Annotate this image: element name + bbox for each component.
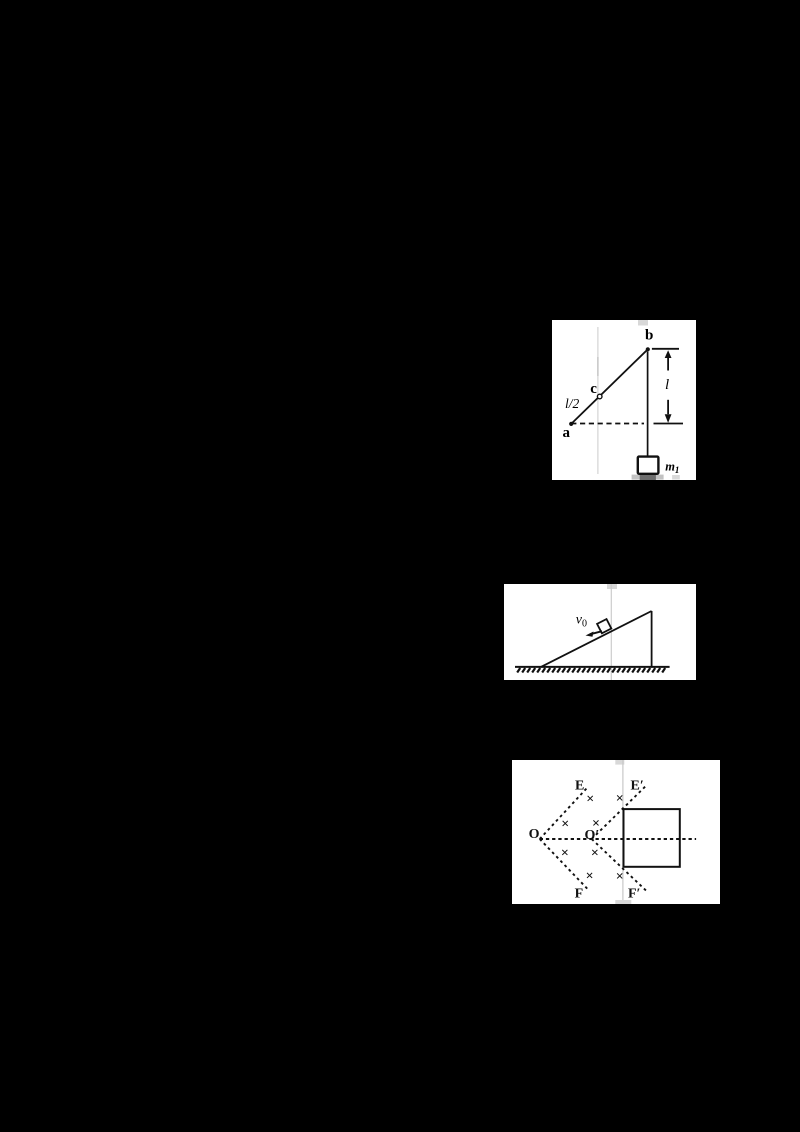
svg-text:b: b	[645, 328, 653, 344]
svg-text:×: ×	[616, 792, 624, 807]
svg-text:c: c	[590, 381, 597, 397]
svg-text:×: ×	[616, 869, 624, 884]
svg-text:F: F	[575, 887, 584, 902]
svg-text:×: ×	[586, 792, 594, 807]
svg-text:O: O	[529, 827, 540, 842]
svg-text:E: E	[575, 779, 584, 794]
svg-text:v0: v0	[576, 613, 587, 630]
svg-text:×: ×	[561, 817, 569, 832]
svg-text:F′: F′	[628, 887, 641, 902]
svg-text:×: ×	[561, 846, 569, 861]
svg-text:E′: E′	[631, 779, 644, 794]
svg-text:×: ×	[591, 846, 599, 861]
svg-text:l/2: l/2	[565, 396, 580, 411]
svg-text:O′: O′	[585, 828, 600, 843]
svg-text:×: ×	[586, 869, 594, 884]
svg-text:l: l	[665, 377, 669, 393]
svg-text:m1: m1	[665, 460, 679, 476]
svg-text:a: a	[563, 425, 571, 441]
